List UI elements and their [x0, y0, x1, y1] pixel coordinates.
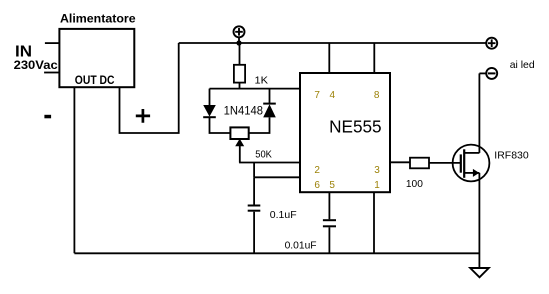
- svg-text:6: 6: [314, 180, 320, 191]
- svg-text:100: 100: [406, 178, 423, 190]
- svg-text:0.01uF: 0.01uF: [285, 240, 317, 252]
- node junction dot on rail: [236, 40, 241, 45]
- svg-text:1N4148: 1N4148: [224, 105, 263, 117]
- wire wiper to pin 2: [239, 162, 300, 164]
- svg-text:OUT DC: OUT DC: [75, 73, 115, 87]
- label minus output: [44, 115, 51, 119]
- wire input stub upper: [45, 42, 60, 44]
- wire pin 4 to rail: [328, 43, 330, 73]
- ground: [470, 268, 489, 277]
- svg-text:ai led: ai led: [510, 59, 535, 71]
- wire pin 1 to ground rail: [373, 192, 375, 253]
- label plus output: [136, 109, 150, 123]
- wire pin 3 to resistor: [390, 161, 410, 163]
- svg-text:IRF830: IRF830: [494, 150, 529, 162]
- power supply box Alimentatore: [59, 29, 134, 87]
- resistor R2 100: [410, 158, 429, 169]
- svg-text:0.1uF: 0.1uF: [270, 209, 297, 221]
- wire node A horizontal pin7: [210, 88, 301, 90]
- svg-text:1K: 1K: [255, 74, 269, 86]
- svg-text:3: 3: [374, 165, 380, 176]
- wire resistor to gate: [429, 162, 460, 164]
- transistor Q1 IRF830 MOSFET: [453, 73, 490, 268]
- potentiometer P1 50K: [230, 127, 248, 162]
- wire bottom ground rail: [74, 252, 479, 254]
- wire minus output from supply down: [73, 87, 75, 253]
- diode D2 1N4148 right (pointing up): [249, 89, 276, 133]
- terminal + right end of rail: [486, 38, 497, 49]
- resistor R1 1K: [234, 43, 245, 89]
- wire drain to minus terminal: [479, 72, 486, 74]
- svg-text:Alimentatore: Alimentatore: [60, 11, 136, 25]
- svg-text:5: 5: [329, 180, 335, 191]
- svg-text:7: 7: [314, 90, 320, 101]
- IC U1 NE555 box: [300, 73, 390, 192]
- svg-text:NE555: NE555: [329, 117, 382, 137]
- wire top positive rail: [179, 42, 487, 44]
- wire pin 8 to rail: [373, 43, 375, 73]
- wire junction to pin 6: [254, 163, 300, 178]
- svg-text:1: 1: [374, 180, 380, 191]
- diode D1 1N4148 left (pointing down): [203, 89, 230, 133]
- svg-text:8: 8: [374, 90, 380, 101]
- wire input stub lower: [44, 72, 59, 74]
- svg-text:4: 4: [330, 90, 336, 101]
- svg-text:230Vac: 230Vac: [14, 58, 58, 72]
- svg-text:2: 2: [314, 165, 320, 176]
- wire plus output from supply to top rail: [120, 43, 179, 133]
- terminal - to led: [486, 68, 497, 79]
- capacitor C2 0.01uF on pin 5: [323, 192, 336, 253]
- capacitor C1 0.1uF: [248, 177, 261, 253]
- terminal +V (circle with plus) above rail: [234, 26, 245, 43]
- svg-text:50K: 50K: [255, 149, 272, 161]
